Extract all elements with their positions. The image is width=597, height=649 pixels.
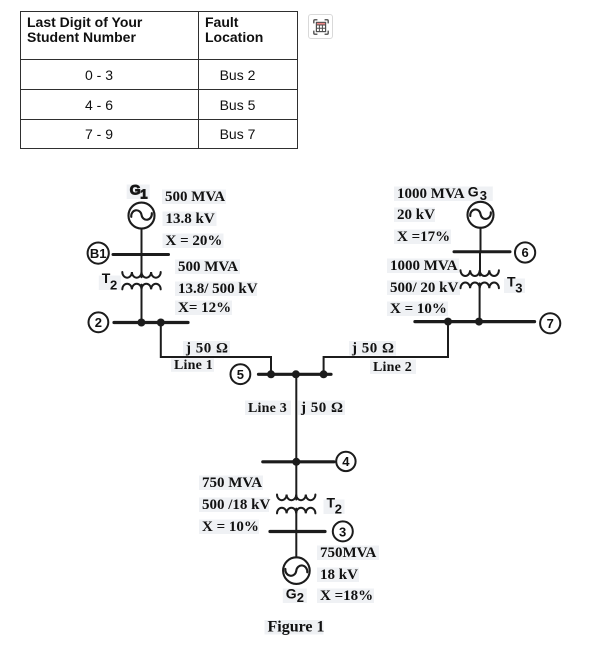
line 3 wire	[295, 374, 297, 462]
transformer T2(left) label	[102, 270, 117, 293]
svg-text:3: 3	[480, 188, 487, 203]
svg-text:13.8/ 500 kV: 13.8/ 500 kV	[178, 281, 258, 297]
generator G2 label	[286, 586, 304, 606]
bus 1 bar	[113, 253, 169, 256]
wire bus6 to T3	[479, 252, 481, 276]
junction dot bus7 T3	[475, 318, 483, 326]
svg-text:Line 2: Line 2	[373, 360, 412, 375]
label j50 line2	[351, 341, 395, 357]
transformer T3 label	[507, 274, 522, 296]
node 5 circle	[231, 364, 251, 384]
svg-text:2: 2	[110, 278, 117, 293]
generator G3	[468, 202, 494, 228]
wire G3 to bus 6	[480, 228, 482, 252]
wire T3 to bus 7	[479, 283, 481, 321]
svg-text:3: 3	[515, 281, 522, 296]
svg-text:Line 3: Line 3	[248, 401, 287, 416]
G2 sine wave	[285, 565, 308, 576]
junction dot bus5 mid	[292, 370, 300, 378]
bus 7 bar	[415, 320, 535, 323]
transformer T3 upper winding	[461, 270, 499, 276]
junction dot bus4	[292, 458, 300, 466]
svg-text:X = 10%: X = 10%	[202, 519, 259, 535]
node 2 circle	[89, 312, 109, 332]
wire bus1 to T2 upper winding	[141, 255, 143, 278]
svg-text:18 kV: 18 kV	[320, 567, 358, 583]
svg-text:2: 2	[335, 502, 342, 517]
node 4 circle	[336, 452, 355, 471]
svg-text:G: G	[130, 182, 141, 198]
transformer T2(bottom) label	[327, 495, 342, 517]
svg-text:G: G	[468, 184, 479, 200]
bus 4 bar	[263, 460, 334, 463]
svg-text:G: G	[286, 586, 297, 602]
junction dot bus2-line1	[157, 319, 165, 327]
svg-text:1000 MVA: 1000 MVA	[390, 258, 458, 274]
T3 ratings text	[390, 258, 459, 317]
G3 sine wave	[470, 209, 491, 219]
node B1 circle	[88, 243, 109, 264]
bus 2 bar	[114, 321, 188, 324]
wire line1 drop from bus2	[161, 323, 271, 375]
T2 bottom ratings text	[202, 475, 271, 535]
G3 ratings text	[397, 186, 465, 245]
svg-text:j 50 Ω: j 50 Ω	[300, 400, 344, 416]
junction dot bus5 left	[267, 370, 275, 378]
svg-text:5: 5	[237, 367, 244, 382]
T2 left ratings text	[178, 259, 258, 316]
svg-text:4: 4	[342, 454, 350, 469]
svg-text:500/ 20 kV: 500/ 20 kV	[390, 280, 459, 296]
transformer T2(bottom) lower winding	[277, 508, 315, 514]
label Line 3	[248, 401, 287, 416]
svg-text:6: 6	[521, 245, 528, 260]
bus 6 bar	[454, 250, 510, 253]
svg-text:750MVA: 750MVA	[320, 545, 377, 561]
svg-text:1: 1	[140, 187, 147, 202]
node 3 circle	[333, 521, 353, 541]
assignment table	[20, 11, 298, 149]
generator G1	[129, 203, 155, 229]
svg-text:500 /18 kV: 500 /18 kV	[202, 497, 271, 513]
svg-text:j 50 Ω: j 50 Ω	[185, 341, 229, 357]
svg-text:500 MVA: 500 MVA	[178, 259, 238, 275]
svg-text:B1: B1	[90, 246, 107, 261]
label Line 2	[373, 360, 412, 375]
transformer T2(left) lower winding	[122, 284, 160, 290]
generator G3 label	[468, 184, 487, 204]
junction dot bus2-T2	[137, 319, 145, 327]
svg-text:20 kV: 20 kV	[397, 207, 435, 223]
label j50 line3	[300, 400, 344, 416]
svg-text:13.8 kV: 13.8 kV	[166, 211, 215, 227]
svg-text:500 MVA: 500 MVA	[165, 189, 225, 205]
node 6 circle	[515, 242, 535, 262]
table tool icon button	[308, 14, 333, 39]
svg-text:j 50 Ω: j 50 Ω	[351, 341, 395, 357]
svg-text:Figure 1: Figure 1	[268, 619, 325, 636]
svg-text:2: 2	[297, 590, 304, 605]
generator G2	[283, 557, 310, 584]
G1 sine wave	[131, 210, 152, 220]
bus 3 bar	[270, 530, 325, 533]
wire line2 from bus5 up	[324, 322, 448, 375]
junction dot bus7 line2	[444, 318, 452, 326]
svg-text:X =17%: X =17%	[397, 229, 450, 245]
wire bus4 to T2 bottom upper winding	[295, 462, 297, 500]
svg-text:X = 20%: X = 20%	[166, 233, 223, 249]
wire T2 bottom to bus 3	[295, 509, 297, 532]
G2 ratings text	[320, 545, 377, 604]
label Line 1	[174, 358, 213, 373]
node 7 circle	[540, 313, 560, 333]
svg-text:X= 12%: X= 12%	[178, 300, 231, 316]
generator G1 label	[130, 182, 148, 202]
transformer T2(left) upper winding	[122, 272, 160, 278]
svg-text:Line 1: Line 1	[174, 358, 213, 373]
transformer T2(bottom) upper winding	[277, 495, 315, 501]
label j50 line1	[185, 341, 229, 357]
transformer T3 lower winding	[461, 283, 499, 289]
wire T2 lower to bus 2	[141, 285, 143, 323]
junction dot bus5 right	[320, 370, 328, 378]
wire G1 to bus 1	[141, 229, 143, 255]
svg-text:7: 7	[547, 316, 554, 331]
svg-text:1000 MVA: 1000 MVA	[397, 186, 465, 202]
svg-text:2: 2	[95, 315, 102, 330]
faint scan highlight boxes behind text	[99, 185, 525, 635]
svg-text:X = 10%: X = 10%	[390, 301, 447, 317]
wire bus3 to G2	[295, 532, 297, 558]
figure caption	[268, 619, 325, 636]
svg-text:3: 3	[339, 524, 346, 539]
G1 ratings text	[165, 189, 225, 249]
bus 5 bar	[259, 373, 332, 376]
svg-text:750 MVA: 750 MVA	[202, 475, 262, 491]
svg-text:X =18%: X =18%	[320, 588, 373, 604]
